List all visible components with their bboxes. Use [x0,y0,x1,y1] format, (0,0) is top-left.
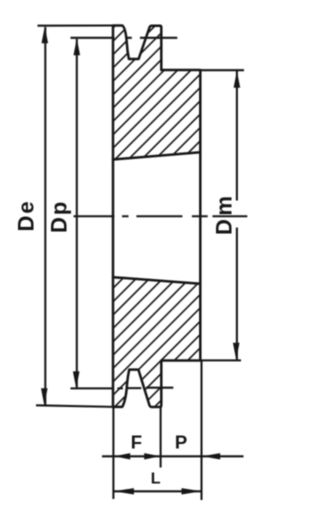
left face silhouette through bore [112,159,115,278]
svg-text:Dp: Dp [47,200,72,233]
arrowhead L left [114,488,134,494]
hatch lower section [0,272,290,412]
sprocket lower half outline (mirror) [113,277,200,407]
extension line De bottom [36,405,113,407]
dimension line Dp [76,39,78,388]
arrowhead F right [144,453,160,459]
arrowhead Dm top [234,71,241,88]
svg-text:P: P [175,431,187,452]
svg-text:F: F [131,432,142,453]
right hub face silhouette through bore [199,152,202,284]
dimension line L [114,490,202,492]
arrowhead Dp top [74,38,81,55]
arrowhead Dm bottom [233,343,240,360]
extension line P/L right (hub face) [200,361,202,500]
extension line F/P middle (plate face) [160,408,162,468]
arrowhead P right (outside, pointing left) [202,453,220,459]
arrowhead F left [114,453,130,459]
hatch upper section [0,20,320,165]
dimension line De [44,27,46,406]
pitch line bottom (dash-dot through teeth) [71,387,174,390]
extension line De top [38,24,114,26]
sprocket upper half outline (teeth, plate, hub, tapered bore wall) [113,26,200,160]
pitch line top (dash-dot through teeth) [71,37,178,39]
extension line Dm bottom [201,359,241,361]
extension line F/L left (below part) [112,408,114,500]
arrowhead Dp bottom [73,371,80,388]
arrowhead De top [42,26,49,43]
arrowhead L right [182,488,202,494]
svg-text:L: L [151,471,161,488]
svg-text:Dm: Dm [212,193,237,235]
dimension line Dm (gap at label) [236,71,238,360]
dimension line F and P [102,455,244,457]
extension line Dm top [201,69,244,71]
arrowhead De bottom [41,388,48,405]
svg-text:De: De [14,199,39,231]
axis centerline (dash-dot) [74,215,248,217]
